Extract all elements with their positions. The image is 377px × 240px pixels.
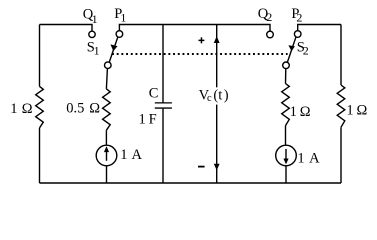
svg-text:1: 1 [10, 101, 17, 117]
switch S1 blade [109, 37, 118, 62]
svg-text:A: A [132, 147, 143, 163]
capacitor C1 plates [155, 103, 172, 108]
svg-text:Ω: Ω [22, 101, 33, 117]
wire branch5 upper [285, 69, 287, 84]
svg-text:1: 1 [120, 11, 126, 25]
svg-text:): ) [224, 87, 229, 103]
wire left edge upper [39, 25, 41, 87]
wire branch2 middle [105, 130, 107, 145]
switch S1 pole [105, 62, 112, 69]
svg-text:2: 2 [303, 44, 309, 58]
wire right edge lower [340, 127, 342, 183]
wire top rail left segment [40, 25, 93, 32]
resistor R2 0.5ohm [103, 89, 111, 130]
svg-text:Ω: Ω [357, 102, 368, 118]
switch S1 arrowhead [110, 44, 117, 51]
svg-text:1: 1 [297, 150, 304, 166]
current source I2 arrowhead [283, 159, 288, 165]
wire top rail middle segment [119, 25, 270, 32]
current source I1 arrow shaft [106, 150, 108, 161]
wire top rail right segment [298, 25, 341, 31]
svg-text:0.5: 0.5 [66, 101, 84, 117]
svg-text:2: 2 [266, 10, 272, 24]
resistor R3 1ohm [282, 84, 290, 126]
svg-text:C: C [149, 85, 159, 101]
label minus [198, 166, 205, 168]
svg-text:1: 1 [92, 12, 98, 26]
capacitor C1 wire upper [162, 25, 164, 103]
dotted gang line [112, 53, 288, 55]
switch S2 blade [287, 37, 296, 62]
wire branch5 lower [285, 166, 287, 183]
terminal P1 [116, 31, 123, 38]
svg-text:A: A [309, 150, 320, 166]
terminal P2 [294, 31, 301, 38]
switch S2 pole [283, 62, 290, 69]
label plus [199, 37, 205, 43]
switch S2 arrowhead [288, 45, 295, 51]
terminal Q2 [267, 31, 274, 38]
svg-text:c: c [207, 93, 212, 104]
svg-text:Ω: Ω [89, 101, 100, 117]
current source I2 circle [276, 145, 297, 166]
svg-text:1: 1 [120, 147, 127, 163]
voltage arrow Vc upper segment [216, 25, 218, 88]
capacitor C1 wire lower [162, 109, 164, 183]
svg-text:1: 1 [290, 104, 297, 120]
resistor R1 1ohm left [36, 86, 44, 128]
current source I2 arrow shaft [285, 149, 287, 159]
wire branch2 lower [106, 166, 108, 183]
voltage arrow Vc lower segment [216, 105, 218, 183]
svg-text:Ω: Ω [300, 104, 311, 120]
voltage arrow down head [214, 164, 220, 171]
terminal Q1 [89, 31, 95, 37]
current source I1 arrowhead [104, 146, 109, 152]
voltage arrow up head [214, 36, 220, 43]
svg-text:1: 1 [94, 43, 100, 57]
svg-text:1: 1 [346, 102, 353, 118]
wire branch2 upper [106, 69, 107, 89]
wire right edge upper [340, 25, 342, 86]
current source I1 circle [96, 145, 117, 166]
svg-text:F: F [149, 111, 157, 127]
wire bottom rail [40, 182, 342, 184]
resistor R4 1ohm right edge [337, 85, 345, 127]
wire left edge lower [39, 128, 41, 183]
svg-text:t: t [218, 87, 222, 103]
svg-text:2: 2 [296, 11, 302, 25]
svg-text:1: 1 [139, 111, 146, 127]
wire branch5 middle [285, 126, 287, 146]
